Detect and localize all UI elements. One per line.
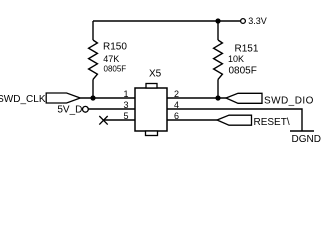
svg-text:1: 1 xyxy=(123,89,128,99)
svg-text:0805F: 0805F xyxy=(104,65,127,74)
no-connect X pin5 xyxy=(99,116,107,125)
wire pin6 xyxy=(167,119,217,121)
port SWD_DIO symbol xyxy=(226,93,262,103)
resistor R150 xyxy=(89,40,98,79)
wire pin1 xyxy=(80,97,135,99)
connector X5 body xyxy=(135,88,167,131)
svg-text:3: 3 xyxy=(123,100,128,110)
svg-text:47K: 47K xyxy=(103,54,119,64)
junction top rail / R151 xyxy=(215,18,220,23)
connector X5 top tab xyxy=(146,84,157,89)
svg-text:X5: X5 xyxy=(149,69,162,80)
wire pin3 xyxy=(88,108,135,110)
svg-text:R150: R150 xyxy=(103,42,127,53)
node 3.3V terminal xyxy=(241,19,246,24)
port RESET symbol xyxy=(217,115,252,125)
node 5V_D terminal xyxy=(83,106,89,112)
junction pin2 / R151 xyxy=(215,95,220,100)
junction pin1 / R150 xyxy=(90,95,95,100)
wire pin4 xyxy=(167,109,302,131)
connector X5 bottom tab xyxy=(146,131,158,136)
svg-text:0805F: 0805F xyxy=(229,66,257,77)
svg-text:SWD_CLK: SWD_CLK xyxy=(0,94,46,105)
port SWD_CLK symbol xyxy=(46,93,80,103)
svg-text:RESET\: RESET\ xyxy=(254,117,290,128)
resistor R151 xyxy=(214,40,223,79)
wire pin5 xyxy=(104,119,136,121)
svg-text:5V_D: 5V_D xyxy=(57,105,82,116)
svg-text:3.3V: 3.3V xyxy=(248,16,267,26)
svg-text:DGND: DGND xyxy=(292,134,321,144)
wire pin2 xyxy=(167,97,226,99)
ground DGND bar xyxy=(290,130,314,132)
wire R151 bottom xyxy=(217,79,219,98)
svg-text:10K: 10K xyxy=(228,54,244,64)
svg-text:5: 5 xyxy=(123,111,128,121)
svg-text:SWD_DIO: SWD_DIO xyxy=(264,95,314,106)
wire R151 top xyxy=(217,21,219,40)
wire R150 top xyxy=(92,21,94,40)
wire R150 bottom xyxy=(92,79,94,98)
wire 3.3V rail xyxy=(93,20,240,22)
svg-text:R151: R151 xyxy=(235,44,259,55)
